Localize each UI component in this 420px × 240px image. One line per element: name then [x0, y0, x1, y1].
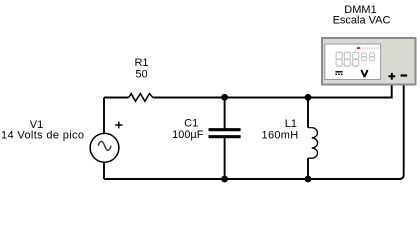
- inductor L1 coil: [308, 128, 318, 159]
- node top inductor junction: [305, 94, 312, 101]
- DMM1 V mode symbol: [361, 70, 367, 77]
- capacitor C1: [172, 98, 241, 180]
- wire top rail middle segment: [154, 97, 309, 99]
- wire inductor top stub: [307, 98, 309, 128]
- svg-text:C1: C1: [184, 118, 198, 130]
- DMM1 DC mode symbol: [335, 72, 342, 75]
- DMM1 minus terminal: [401, 74, 408, 76]
- wire bottom rail: [104, 85, 404, 180]
- wire capacitor bottom stub: [224, 137, 226, 179]
- node bottom capacitor junction: [221, 176, 228, 183]
- source V1: [1, 98, 122, 180]
- wire inductor bottom stub: [307, 158, 309, 179]
- svg-text:L1: L1: [285, 118, 297, 130]
- DMM1 seven-segment digit 3: [353, 52, 359, 66]
- wire capacitor top stub: [224, 98, 226, 130]
- svg-text:100µF: 100µF: [172, 129, 204, 141]
- svg-text:14 Volts de pico: 14 Volts de pico: [1, 130, 84, 142]
- DMM1 display: [325, 44, 381, 80]
- svg-text:R1: R1: [134, 57, 148, 69]
- DMM1 seven-segment digit 1: [336, 52, 342, 66]
- node top capacitor junction: [221, 94, 228, 101]
- source sine symbol: [98, 141, 111, 150]
- wire top rail right segment to DMM plus lead: [308, 85, 392, 98]
- DMM1 annunciator dots: [362, 48, 378, 49]
- DMM1 small seven-segment digit 5: [370, 53, 375, 61]
- svg-text:50: 50: [135, 69, 147, 81]
- DMM1 plus terminal: [388, 73, 395, 80]
- source plus polarity mark: [115, 122, 122, 129]
- multimeter DMM1: [322, 4, 416, 85]
- resistor R1: [129, 94, 154, 102]
- capacitor C1 plates: [209, 130, 241, 137]
- DMM1 red indicator: [357, 47, 360, 49]
- DMM1 small seven-segment digit 4: [361, 53, 366, 61]
- svg-text:160mH: 160mH: [262, 130, 299, 142]
- wire top rail left segment: [104, 97, 129, 99]
- wire source bottom stub: [103, 162, 105, 179]
- DMM1 seven-segment digit 2: [344, 52, 350, 66]
- source V1 circle: [90, 133, 119, 162]
- DMM1 body: [322, 38, 416, 85]
- wire source top stub: [103, 98, 105, 134]
- svg-text:Escala VAC: Escala VAC: [333, 15, 391, 27]
- inductor L1: [262, 98, 318, 180]
- node bottom inductor junction: [305, 176, 312, 183]
